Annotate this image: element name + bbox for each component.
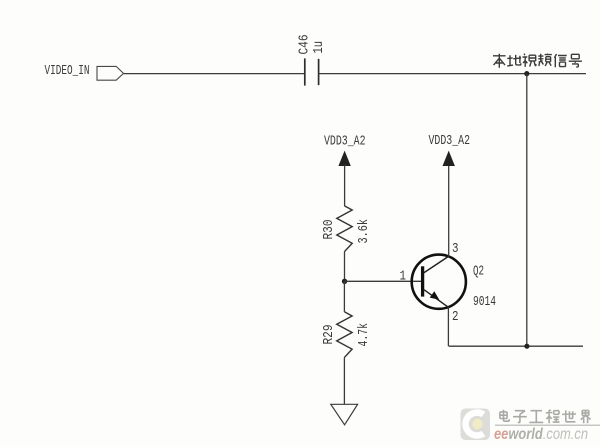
junction bottom node <box>524 344 529 349</box>
svg-text:VDD3_A2: VDD3_A2 <box>429 133 471 149</box>
wire input to C46 <box>124 73 305 75</box>
net label 本地视频信号 <box>493 54 582 68</box>
wire R29 to ground <box>343 358 345 405</box>
resistor R29 <box>337 312 352 358</box>
watermark logo square <box>461 409 491 441</box>
resistor R30 <box>337 206 352 252</box>
svg-text:R30: R30 <box>321 220 337 240</box>
svg-text:3: 3 <box>452 241 459 257</box>
svg-text:3.6k: 3.6k <box>356 219 372 244</box>
capacitor C46 <box>305 58 319 85</box>
transistor Q2 base bar <box>421 266 424 296</box>
ground symbol <box>331 404 358 425</box>
svg-text:Q2: Q2 <box>473 264 484 280</box>
port tag VIDEO_IN <box>97 66 124 80</box>
power symbol VDD3_A2 (left) <box>338 151 350 206</box>
svg-text:VDD3_A2: VDD3_A2 <box>324 134 366 150</box>
watermark logo inner dot <box>472 419 482 429</box>
svg-text:9014: 9014 <box>473 294 496 310</box>
wire right vertical <box>526 74 528 347</box>
svg-text:eeworld.com.cn: eeworld.com.cn <box>494 426 588 443</box>
transistor Q2 emitter arrow <box>430 291 440 299</box>
watermark underline <box>495 424 600 426</box>
svg-text:4.7k: 4.7k <box>356 323 372 347</box>
wire node to R29 <box>343 281 345 312</box>
wire R30 bottom to node <box>344 252 346 282</box>
transistor Q2 emitter stroke <box>424 290 448 308</box>
junction top node <box>524 71 529 76</box>
wire emitter to right <box>449 345 583 347</box>
watermark logo crescent <box>466 413 484 436</box>
svg-text:R29: R29 <box>321 325 337 345</box>
wire Q2 collector to VDD <box>448 165 450 256</box>
watermark 电子工程世界 <box>500 410 591 424</box>
wire node to Q2 base <box>345 280 421 282</box>
wire Q2 emitter down <box>447 307 449 346</box>
transistor Q2 circle <box>412 255 466 309</box>
svg-text:1: 1 <box>400 269 407 285</box>
svg-text:1u: 1u <box>311 41 327 54</box>
junction node at base divider <box>342 279 347 284</box>
svg-text:VIDEO_IN: VIDEO_IN <box>45 63 90 79</box>
power symbol VDD3_A2 (right) <box>443 151 455 166</box>
svg-text:2: 2 <box>452 309 459 325</box>
wire C46 to right <box>319 73 586 75</box>
transistor Q2 collector stroke <box>424 256 449 273</box>
